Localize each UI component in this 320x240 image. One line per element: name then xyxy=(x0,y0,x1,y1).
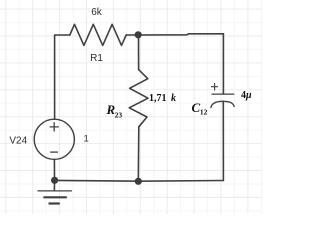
node junction top (R1/R23) xyxy=(135,31,142,38)
wire right rail down to capacitor xyxy=(222,34,224,94)
svg-text:6k: 6k xyxy=(91,7,103,18)
capacitor C12 curved plate xyxy=(211,101,234,108)
V24 plus sign xyxy=(50,122,59,131)
node junction bottom (R23/bottom rail) xyxy=(135,178,142,185)
wire V24 bottom to bottom junction xyxy=(53,159,55,180)
capacitor C12 polarity plus xyxy=(211,83,218,91)
svg-text:1,71 k: 1,71 k xyxy=(149,93,176,104)
wire left rail from top corner down to V24 top xyxy=(55,35,70,119)
svg-text:V24: V24 xyxy=(9,136,27,147)
voltage source V24 circle xyxy=(34,119,74,159)
capacitor C12 top plate xyxy=(212,93,235,95)
node junction left (V24/ground) xyxy=(51,177,58,184)
resistor R1 xyxy=(70,24,126,45)
wire bottom rail xyxy=(55,179,224,182)
svg-text:4μ: 4μ xyxy=(241,90,252,101)
wire top rail to right corner xyxy=(126,34,223,35)
wire R23 bottom to bottom rail xyxy=(137,127,140,181)
svg-text:1: 1 xyxy=(84,134,89,145)
wire capacitor bottom to bottom rail xyxy=(222,101,224,180)
svg-text:R1: R1 xyxy=(90,53,103,64)
ground xyxy=(38,180,72,203)
V24 minus sign xyxy=(50,151,58,153)
resistor R23 xyxy=(129,70,148,127)
wire from top junction down to R23 xyxy=(138,35,140,70)
